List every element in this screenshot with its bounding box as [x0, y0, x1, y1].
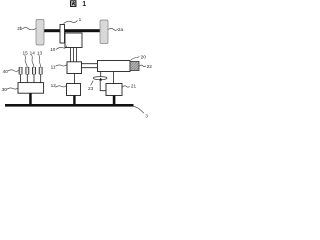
leader 12 — [56, 85, 67, 87]
svg-text:13: 13 — [37, 50, 43, 55]
ECU 30 — [18, 83, 44, 94]
svg-text:11: 11 — [51, 65, 56, 70]
figure title 図 (drawn glyph) — [71, 1, 76, 7]
wire 30 to bus — [29, 93, 32, 104]
sensor 40c — [32, 67, 35, 74]
svg-text:21: 21 — [131, 84, 137, 89]
leader 10 — [56, 46, 67, 50]
fan shaft wire — [100, 72, 102, 77]
leader 14 — [32, 55, 34, 67]
power bus 3 — [5, 104, 134, 107]
sensor 40b — [26, 67, 29, 74]
svg-text:22: 22 — [147, 64, 153, 69]
leader 11 — [56, 65, 68, 67]
controller 21 — [106, 84, 122, 96]
converter 12 — [67, 84, 81, 96]
leader 20 — [131, 57, 140, 60]
axle shaft wire — [43, 29, 101, 32]
leader 30 — [7, 88, 18, 89]
leader 15 — [25, 55, 28, 67]
sensor 40d — [39, 67, 42, 74]
svg-text:12: 12 — [51, 83, 57, 88]
leader 23 — [91, 81, 94, 86]
inverter 11 — [67, 62, 82, 74]
wires inverter 11 to motor 20 — [82, 64, 98, 68]
leader 40 — [8, 70, 19, 71]
leader 13 — [39, 55, 41, 67]
wheel 2b — [36, 20, 44, 46]
wire 11 to 12 — [73, 74, 75, 84]
wheel 2a — [100, 20, 108, 44]
wire 21 to bus — [113, 96, 116, 105]
svg-text:2b: 2b — [17, 26, 23, 31]
svg-text:15: 15 — [23, 50, 29, 55]
svg-text:2a: 2a — [118, 27, 124, 32]
three-phase wires transaxle to inverter 11 — [71, 48, 77, 62]
svg-text:23: 23 — [88, 86, 94, 91]
svg-text:40: 40 — [3, 69, 9, 74]
svg-text:20: 20 — [141, 55, 147, 60]
sensor wires to ECU — [21, 74, 41, 82]
leader 2b — [23, 28, 37, 30]
motor 20 — [98, 61, 131, 72]
compressor 22 — [130, 62, 139, 71]
wire fan to 21 — [100, 81, 106, 91]
leader 21 — [123, 86, 130, 87]
svg-text:14: 14 — [30, 50, 36, 55]
svg-text:10: 10 — [50, 47, 56, 52]
gear plate of transaxle — [60, 25, 65, 44]
fan 23 — [93, 77, 107, 80]
wire 12 to bus — [73, 96, 75, 105]
leader 2a — [108, 28, 118, 30]
svg-text:1: 1 — [82, 1, 86, 8]
wire 20 to 21 — [113, 72, 115, 84]
svg-text:30: 30 — [2, 87, 8, 92]
svg-text:3: 3 — [145, 114, 148, 119]
leader 1 — [64, 20, 78, 24]
leader 3 — [134, 106, 144, 113]
sensor 40a — [19, 67, 22, 74]
leader 22 — [140, 65, 146, 67]
transaxle case 10 — [65, 33, 82, 48]
svg-text:1: 1 — [79, 17, 82, 22]
fan arrow — [99, 78, 102, 81]
